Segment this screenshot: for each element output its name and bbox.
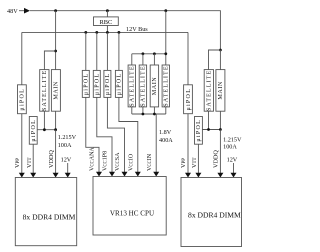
wire left 48V drop to MAIN: [55, 11, 57, 70]
pin Vtt arrowhead right: [195, 173, 201, 178]
load right 8x DDR4 DIMM: [181, 178, 242, 247]
svg-text:SATELLITE: SATELLITE: [163, 65, 170, 106]
svg-text:VCCSA: VCCSA: [115, 152, 121, 171]
svg-text:MAIN: MAIN: [151, 77, 158, 96]
pin 12V arrowhead left: [65, 173, 71, 178]
wire middle top rail: [132, 53, 166, 55]
svg-text:μiPOL: μiPOL: [196, 119, 202, 142]
wire middle bottom rail: [132, 113, 166, 115]
svg-text:μiPOL: μiPOL: [31, 119, 37, 142]
svg-text:1.215V: 1.215V: [223, 137, 242, 144]
node bottom rail junction 2: [142, 113, 145, 116]
svg-text:VPP: VPP: [180, 158, 187, 168]
pin Vtt arrowhead left: [30, 173, 36, 178]
wire niPOL2 feed: [96, 32, 98, 70]
wire niPOL3 feed: [106, 32, 108, 70]
wire right MAIN output: [219, 111, 221, 129]
pin Vpp arrowhead right: [185, 173, 191, 178]
svg-text:VCCANA: VCCANA: [90, 147, 96, 171]
pin VccIN arrowhead: [153, 172, 159, 177]
wire left VDDQ line: [55, 130, 57, 174]
wire left merge rail to niPOL B input: [37, 129, 55, 131]
wire right branch to SATELLITE: [209, 50, 221, 70]
node junction on 48V line middle: [164, 9, 167, 12]
node bus junction niPOL1: [84, 31, 87, 34]
node top rail junction 3: [153, 52, 156, 55]
svg-text:VTT: VTT: [26, 157, 33, 168]
svg-text:12V: 12V: [61, 156, 72, 163]
wire left niPOL B output to Vtt arrow: [32, 144, 34, 173]
wire RBC input: [106, 11, 108, 17]
pin VccSA arrowhead: [122, 172, 128, 177]
wire middle 48V drop: [165, 11, 167, 65]
wire niPOL4 feed: [118, 32, 120, 70]
wire stub out of middle box4: [165, 107, 167, 114]
svg-text:VR13 HC CPU: VR13 HC CPU: [110, 209, 154, 217]
svg-text:VCCIO: VCCIO: [128, 153, 134, 171]
svg-text:μiPOL: μiPOL: [186, 88, 192, 111]
wire stub out of middle box3: [153, 107, 155, 114]
wire left branch to SATELLITE: [44, 51, 55, 70]
wire 48V main horizontal line: [30, 11, 220, 50]
wire stub out of middle box2: [142, 107, 144, 114]
svg-text:VDDQ: VDDQ: [48, 150, 55, 168]
wire right niPOL B output to Vtt arrow: [197, 144, 199, 173]
wire bus left end down to left niPOL A: [21, 32, 23, 84]
wire right VDDQ line: [219, 130, 221, 174]
pin VccIO arrowhead: [135, 172, 141, 177]
node junction on 48V line left: [54, 9, 57, 12]
svg-text:SATELLITE: SATELLITE: [206, 70, 213, 111]
svg-text:MAIN: MAIN: [217, 81, 224, 100]
wire stub out of middle box1: [131, 107, 133, 114]
node bus junction niPOL2: [95, 31, 98, 34]
converter niPOL 4: [115, 70, 122, 97]
converter right SATELLITE: [204, 70, 213, 112]
wire left niPOL A output to Vpp arrow: [21, 114, 23, 174]
svg-text:8x DDR4 DIMM: 8x DDR4 DIMM: [23, 213, 76, 222]
pin VDDQ arrowhead left: [53, 173, 59, 178]
node bottom rail junction 3: [153, 113, 156, 116]
wire VccIN line: [155, 114, 157, 172]
svg-text:12V: 12V: [227, 157, 238, 164]
wire right 48V drop continues to MAIN: [219, 50, 221, 70]
svg-text:SATELLITE: SATELLITE: [41, 70, 48, 111]
svg-text:SATELLITE: SATELLITE: [140, 65, 147, 106]
converter left SATELLITE: [40, 70, 49, 112]
converter niPOL 1: [82, 70, 89, 97]
converter niPOL 3: [104, 70, 111, 97]
converter middle SATELLITE 1: [128, 65, 135, 107]
svg-text:100A: 100A: [223, 144, 237, 151]
svg-text:VDDQ: VDDQ: [213, 150, 220, 168]
svg-text:μiPOL: μiPOL: [105, 73, 111, 96]
converter middle SATELLITE 3: [162, 65, 169, 107]
svg-text:RBC: RBC: [100, 19, 113, 26]
svg-text:μiPOL: μiPOL: [117, 73, 123, 96]
converter right niPOL A: [184, 85, 193, 114]
node top rail junction 2: [142, 52, 145, 55]
wire 48V lead: [19, 10, 24, 12]
converter left MAIN: [51, 70, 60, 112]
wire niPOL1 feed: [85, 32, 87, 70]
svg-text:μiPOL: μiPOL: [20, 88, 26, 111]
node left branch junction: [54, 50, 57, 53]
svg-text:8x DDR4 DIMM: 8x DDR4 DIMM: [188, 210, 241, 219]
svg-text:μiPOL: μiPOL: [84, 73, 90, 96]
svg-text:12V Bus: 12V Bus: [126, 26, 148, 33]
node top rail junction 4: [164, 52, 167, 55]
wire 12V bus horizontal: [22, 31, 188, 33]
wire RBC output to 12V bus: [106, 26, 108, 33]
svg-text:VCCIN: VCCIN: [147, 153, 153, 171]
wire niPOL2 output staircase to Vcc1P8: [97, 97, 112, 172]
converter middle SATELLITE 2: [139, 65, 146, 107]
svg-text:1.215V: 1.215V: [58, 134, 77, 141]
pin Vcc1P8 arrowhead: [109, 172, 115, 177]
wire stub into middle box2: [142, 54, 144, 65]
node right merge junction SATELLITE: [207, 128, 210, 131]
wire 12V short arrow left: [67, 163, 69, 173]
node right merge junction MAIN: [219, 128, 222, 131]
wire right 48V branch junction: [219, 49, 222, 52]
pin Vpp arrowhead left: [19, 173, 25, 178]
converter RBC: [94, 17, 119, 26]
converter right MAIN: [216, 70, 225, 112]
wire right SATELLITE output: [208, 111, 210, 129]
48V input arrow: [24, 8, 30, 14]
wire left MAIN output: [55, 111, 57, 130]
pin 12V arrowhead right: [231, 173, 237, 178]
load left 8x DDR4 DIMM: [15, 178, 76, 246]
load VR13 HC CPU: [93, 177, 166, 236]
wire bus right end down to right niPOL A: [187, 32, 189, 84]
svg-text:VPP: VPP: [14, 158, 21, 168]
svg-text:SATELLITE: SATELLITE: [129, 65, 136, 106]
converter niPOL 2: [93, 70, 100, 97]
wire stub into middle box1: [131, 54, 133, 65]
node left merge junction SATELLITE: [43, 128, 46, 131]
node bus junction niPOL4: [118, 31, 121, 34]
wire niPOL3 output staircase to VccSA: [107, 97, 124, 172]
converter right niPOL B: [195, 117, 203, 145]
pin VccANA arrowhead: [96, 172, 102, 177]
svg-text:400A: 400A: [159, 137, 173, 144]
svg-text:48V: 48V: [7, 8, 18, 15]
svg-text:100A: 100A: [58, 142, 72, 149]
wire niPOL1 output staircase to VccANA: [86, 97, 99, 172]
wire right merge rail to niPOL B input: [202, 129, 220, 131]
svg-text:1.8V: 1.8V: [159, 129, 172, 136]
wire right niPOL A output to Vpp arrow: [187, 114, 189, 174]
wire 12V short arrow right: [233, 163, 235, 173]
svg-text:μiPOL: μiPOL: [95, 73, 101, 96]
converter left niPOL B: [29, 117, 37, 145]
svg-text:VCC1P8: VCC1P8: [103, 151, 109, 171]
wire niPOL4 output staircase to VccIO: [119, 97, 138, 172]
converter left niPOL A: [18, 85, 27, 114]
svg-text:VTT: VTT: [191, 157, 198, 168]
node bus junction niPOL3: [106, 31, 109, 34]
node junction on 48V line RBC: [106, 9, 109, 12]
svg-text:MAIN: MAIN: [53, 81, 60, 100]
wire stub into middle box3: [153, 54, 155, 65]
converter middle MAIN: [150, 65, 158, 107]
pin VDDQ arrowhead right: [217, 173, 223, 178]
node left merge junction MAIN: [54, 128, 57, 131]
wire left SATELLITE output: [43, 111, 45, 130]
